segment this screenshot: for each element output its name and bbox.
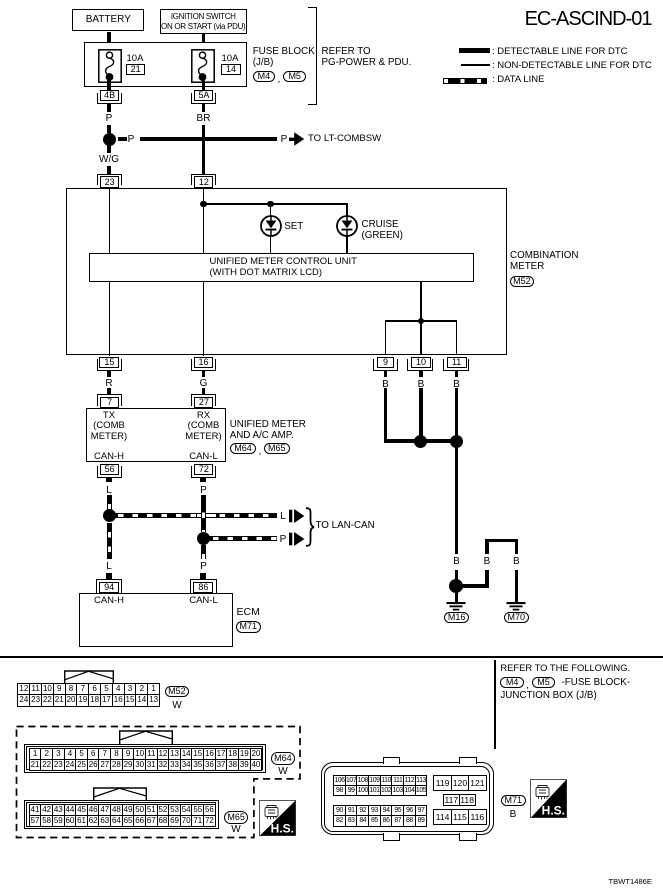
wire B down to ground area [455,443,459,554]
wire junction to ground M16 [455,591,459,603]
wire B from 11 down [455,388,459,444]
ground bridge left vertical upper [485,539,489,555]
label CAN-L [174,452,234,463]
ground symbol M70 [504,602,528,612]
wire B horizontal join [384,439,458,443]
wire label G [194,378,214,389]
battery box [72,9,144,31]
legend data line text [492,75,544,86]
label TO LT-COMBSW [308,134,381,145]
label CAN-L in ECM [174,596,234,607]
junction node on 12 wire [200,201,206,207]
connector 16 [191,359,216,372]
connector 5A [191,93,216,104]
wire label B bridge right [506,556,526,567]
right square bracket [308,7,317,105]
connector 7 [97,394,122,405]
wire horizontal distribution [385,320,457,322]
M52 pinout grid [17,683,160,707]
wire B from 9 down [384,388,388,444]
junction node right harness [418,318,424,324]
wire ignition switch to fuse 2 [202,34,206,52]
M64 pinout outer box [24,744,266,773]
wire 23 down inside meter [109,188,111,253]
M64 pinout oval [271,752,296,764]
junction node P [103,133,116,146]
M65 pinout grid [29,804,216,827]
data line L down to junction [107,495,112,511]
wire W/G to connector 23 [107,166,111,175]
connector 4B [97,93,122,104]
note comma [526,680,529,691]
indicator CRUISE led [336,215,358,237]
label CRUISE (GREEN) [362,220,403,242]
M71 pinout grid top small [333,775,427,797]
wire stub below 10 [419,371,423,377]
wire SET led vertical [270,203,272,253]
wire down to 9 [385,320,387,355]
wire stub below 16 [202,371,206,377]
wire label P above 86 [194,561,214,572]
ground oval M16 [444,612,469,624]
wire down to 11 [456,320,458,355]
M52 pinout color W [167,700,187,711]
ground bridge right vertical upper [515,539,519,555]
junction node CAN-H [103,509,116,522]
data line L junction to label [107,523,112,559]
fuse F2 10A symbol [191,49,215,83]
label RX (COMB METER) [169,411,239,443]
label P before arrow [276,534,290,545]
M71 pinout body inner [324,766,490,832]
label ECM [237,607,260,619]
curly brace TO LAN-CAN [305,507,315,547]
wire control unit to 15 [109,282,111,356]
connector oval M52 right [510,276,535,287]
wire BR to connector 12 [202,125,206,175]
wire label B above ground junction [447,556,467,567]
indicator SET led [260,215,282,237]
M71 mounting tab top left [383,757,401,765]
legend non-detectable line sample [461,64,490,66]
legend non-detectable line text [492,61,652,72]
pin stub square below 56 [106,477,112,482]
wire stub below 9 [384,371,388,377]
ground symbol M16 [444,602,468,612]
ignition switch box [160,9,248,34]
wire label R [99,378,119,389]
wire label L above 94 [99,561,119,572]
fuse F2 label 10A [222,54,239,65]
M71 mounting tab bottom right [459,833,477,841]
arrow L to LAN-CAN [289,509,305,523]
junction node ground [449,579,463,593]
M71 pinout row 119-121 [433,775,486,791]
note FUSE BLOCK text [562,678,631,689]
M64 connector key tab [119,730,173,745]
M65 pinout color W [226,824,246,835]
wire label P below 72 [194,485,214,496]
M64 pinout color W [273,766,293,777]
H.S. icon left [259,800,296,836]
comma between M64 M65 [259,446,262,457]
wire down to 10 [420,320,422,355]
label L before arrow [276,511,290,522]
junction node at SET branch [267,201,273,207]
M52 connector key tab [64,670,114,685]
M71 pinout color B [503,809,523,820]
wire control unit down right [420,282,422,321]
connector 10 [407,359,433,372]
ground oval M70 [504,612,529,624]
wire label P at branch [121,134,141,145]
fuse F1 10A symbol [98,49,122,83]
wire G to connector 27 [202,388,206,396]
ground bridge right vertical lower [515,570,519,603]
separator vertical line bottom right [494,660,496,749]
connector 23 [97,174,122,185]
connector 56 [97,466,122,478]
pin stub square above 94 [106,573,112,580]
label unified meter control unit [210,257,357,279]
wire label B below 9 [376,379,396,390]
wire label BR [194,113,214,124]
H.S. icon right [530,779,567,818]
wire B label to junction [455,570,459,581]
M71 pinout row 117-118 [443,794,476,806]
wire stub below 4B [107,104,111,112]
M71 pinout row 114-116 [433,809,486,825]
wire CRUISE led vertical [346,203,348,253]
note REFER TO PG-POWER and PDU [322,47,412,69]
wire B from 10 down [419,388,423,444]
wire label B below 10 [411,379,431,390]
connector 72 [191,466,216,478]
wire R to connector 7 [107,388,111,396]
arrow to LT-COMBSW [289,132,305,146]
label TO LAN-CAN [316,521,375,532]
M65 pinout outer box [24,800,220,830]
junction node CAN-L [197,532,210,545]
connector 27 [191,394,216,405]
fuse block J/B box [84,42,247,87]
unified meter and A/C amp box [86,408,227,462]
arrow P to LAN-CAN [289,532,305,546]
ECM box [79,593,233,647]
connector oval M64 label [230,443,257,454]
wire stub below 15 [107,371,111,377]
ground bridge elbow to junction [462,584,489,588]
wire label B below 11 [447,379,467,390]
unified meter control unit box [89,253,474,282]
title EC-ASCIND-01 [525,9,652,29]
fuse F1 label 10A [127,54,144,65]
connector 9 [373,359,399,372]
data line P down to junction [201,495,206,533]
wire label W/G [94,154,124,165]
wire label B bridge left [477,556,497,567]
wire stub below 5A [202,104,206,112]
M71 mounting tab bottom left [383,833,401,841]
wire 12 down inside meter [203,188,205,253]
note REFER TO THE FOLLOWING [500,663,630,674]
wire fuse 1 to connector 4B [107,76,111,90]
connector oval M5 [283,71,306,82]
pin stub square below 72 [200,477,206,482]
dashed group outline M64 M65 [15,725,302,839]
note oval M4 [500,677,524,688]
M71 pinout grid bottom small [333,805,427,827]
data line crossing white gap [197,513,216,518]
label UNIFIED METER AND A/C AMP [230,420,306,442]
wire control unit to 16 [203,282,205,356]
label COMBINATION METER [510,251,578,273]
svg-text:H.S.: H.S. [541,804,564,818]
M64 pinout grid [29,748,263,771]
connector oval M4 [253,71,275,82]
fuse F1 number box 21 [126,64,145,74]
fuse block label FUSE BLOCK (J/B) [253,47,315,69]
wire label P before arrow [277,134,291,145]
data line CAN-H horizontal [109,513,277,518]
legend data line sample [443,78,487,84]
wire battery to fuse 1 [107,32,111,52]
connector 12 [191,174,216,185]
note oval M5 [532,677,556,688]
wire horizontal to cruise led [203,203,348,205]
M71 mounting tab top right [459,757,477,765]
data line P junction to label [201,545,206,559]
connector oval M65 label [264,443,291,454]
connector 15 [97,359,122,372]
pin stub square above 86 [200,573,206,580]
junction node B right [450,435,463,448]
connector 94 [96,579,123,593]
figure code TBWT1486E [609,878,652,887]
M64 pinout inner box [26,746,263,770]
comma between M4 M5 [278,74,281,85]
legend detectable line text [492,47,627,58]
wire dash right of junction [118,137,127,141]
label CAN-H in ECM [79,596,139,607]
svg-text:H.S.: H.S. [271,821,294,835]
combination meter box [66,188,507,355]
M52 pinout oval [165,686,190,698]
junction node B mid [414,435,427,448]
M65 pinout oval [224,811,249,823]
fuse F2 number box 14 [221,64,240,74]
wire stub below 11 [455,371,459,377]
M71 pinout body outer [321,762,494,835]
wire junction to W/G [107,145,111,153]
M65 pinout inner box [26,802,216,826]
label SET [284,222,303,233]
wire label P [99,113,119,124]
M65 connector key tab [93,787,147,802]
M71 pinout oval [501,795,526,807]
ground bridge horizontal top [485,539,518,543]
legend detectable line sample [459,48,491,53]
wire label L below 56 [99,485,119,496]
separator line [0,656,663,658]
ground bridge left vertical lower [485,570,489,588]
connector oval M71 label [236,621,261,633]
label TX (COMB METER) [74,411,144,443]
wire branch to LT-COMBSW [140,137,277,141]
wire fuse 2 to connector 5A [202,76,206,90]
connector 86 [190,579,217,593]
label CAN-H [79,452,139,463]
data line CAN-L horizontal [204,536,277,541]
note JUNCTION BOX text [500,691,596,702]
connector 11 [443,359,469,372]
wire P to junction [107,125,111,134]
